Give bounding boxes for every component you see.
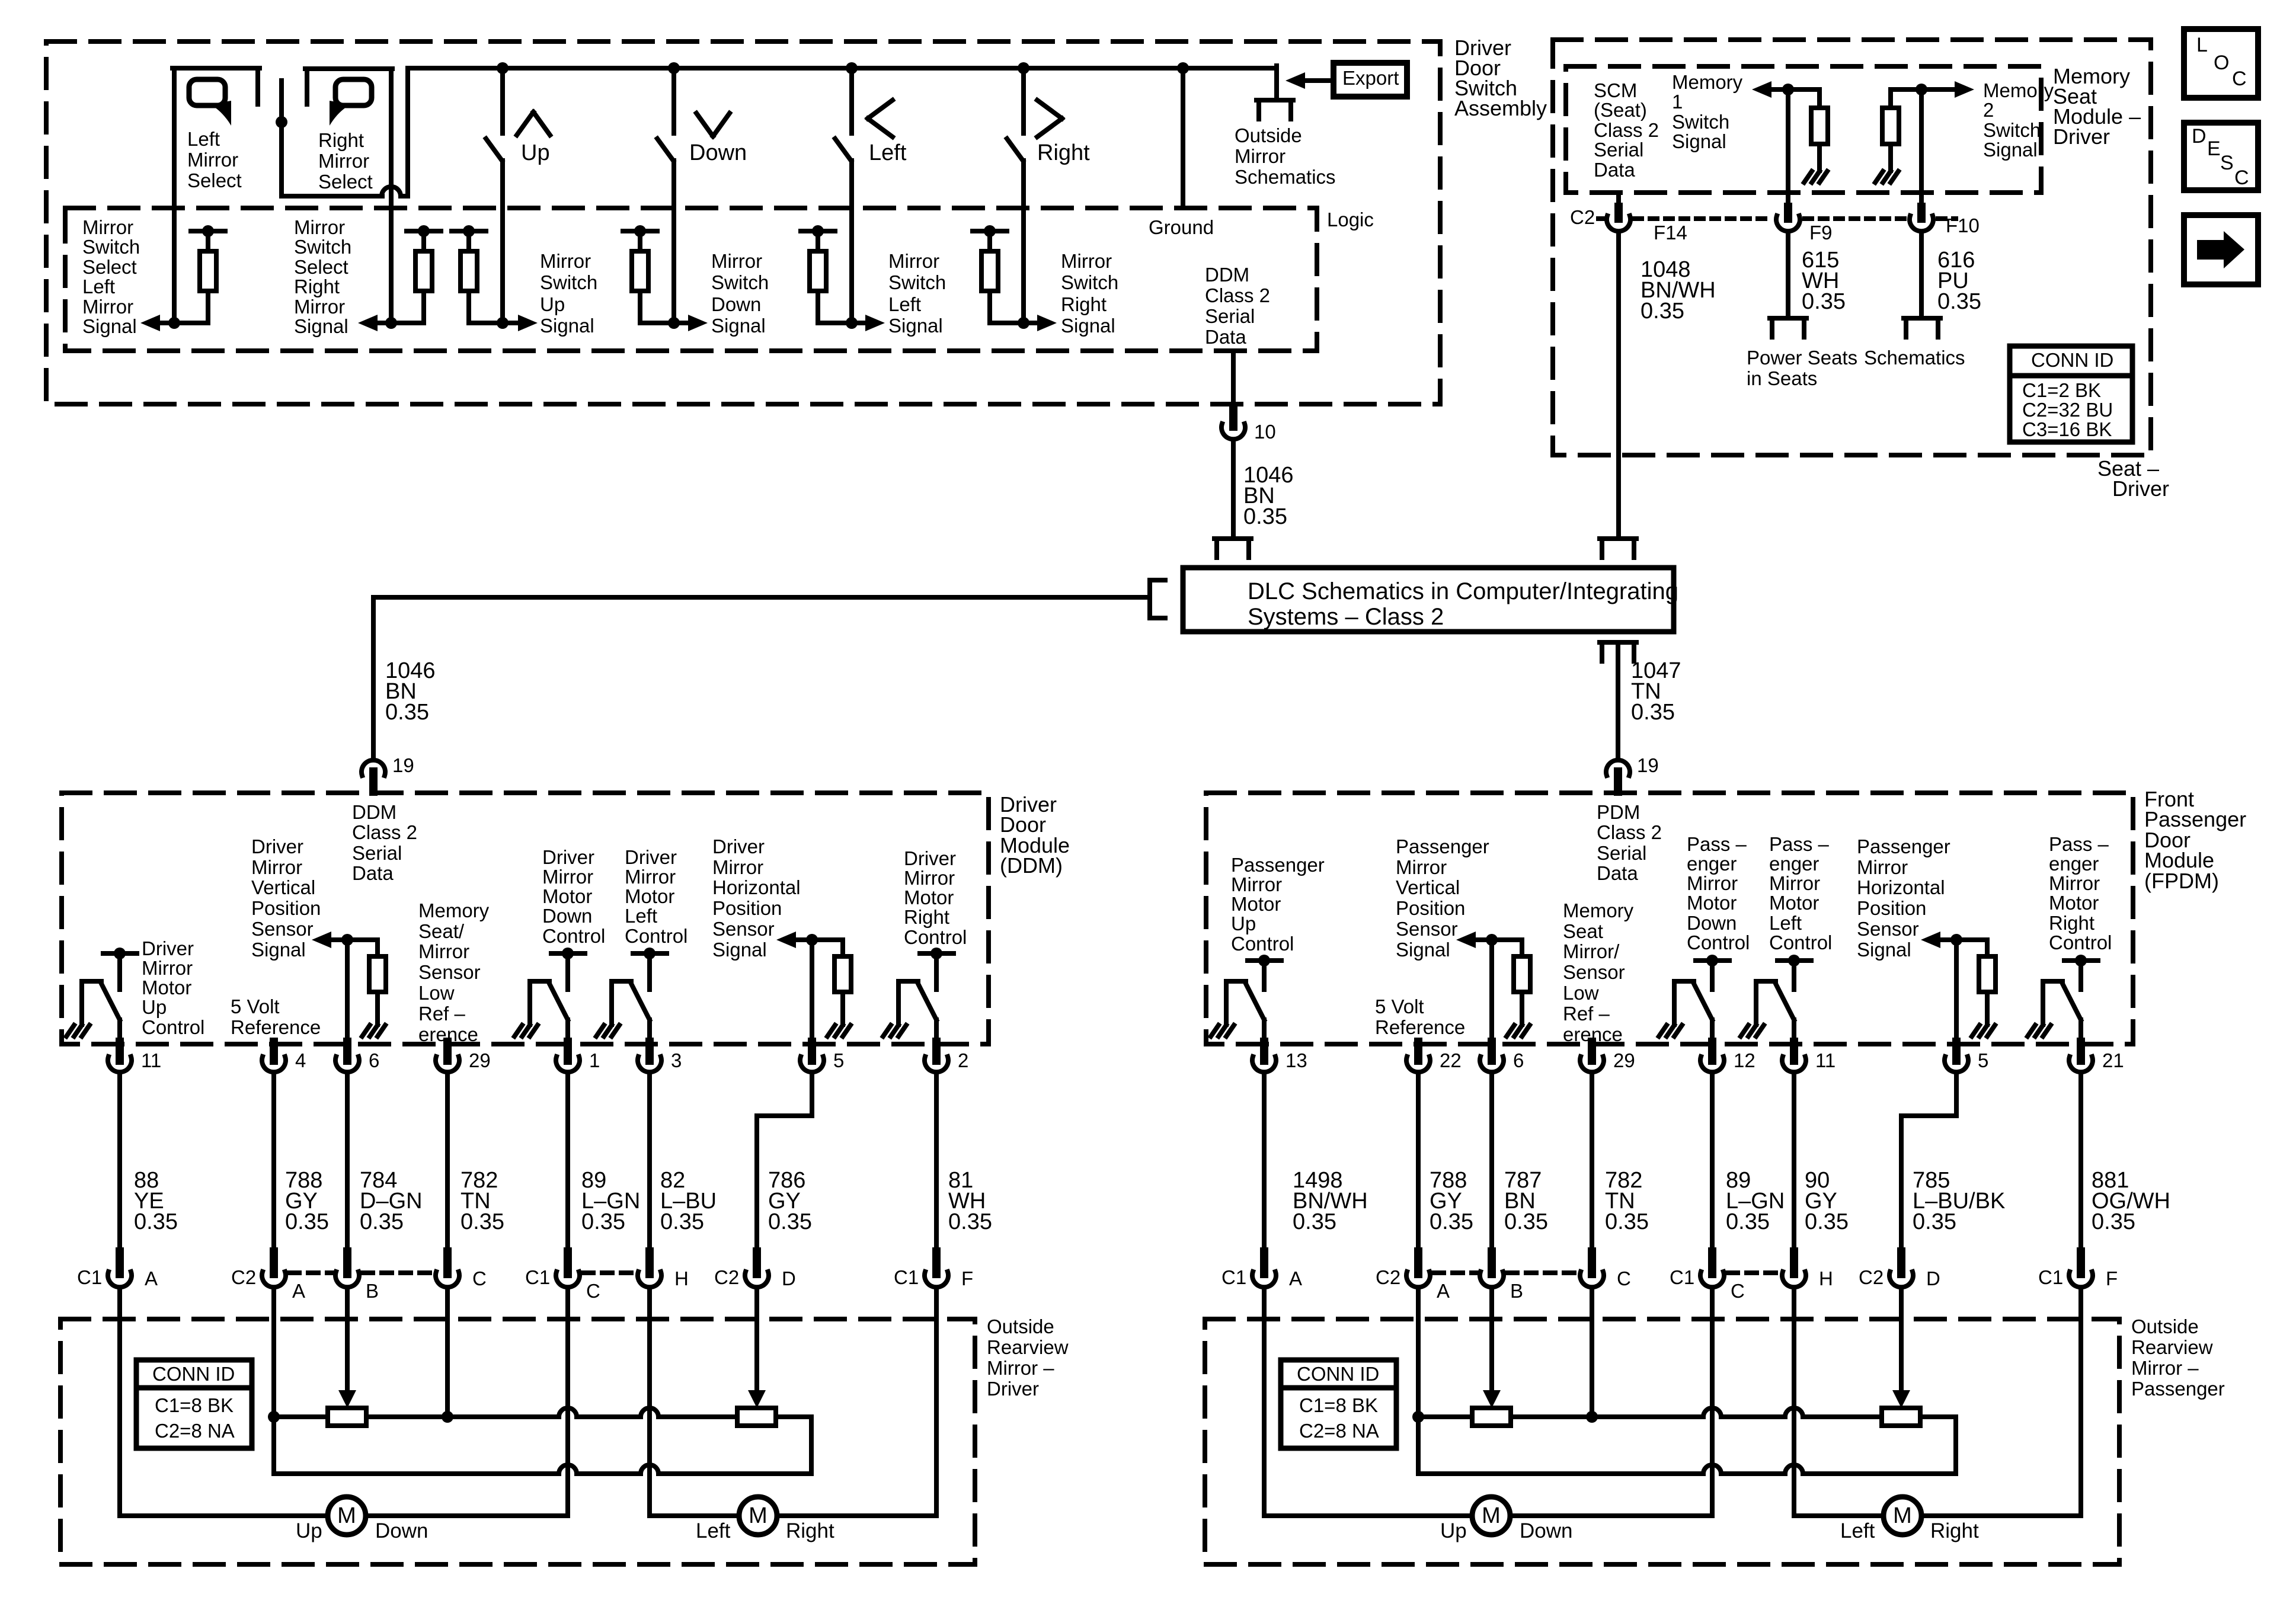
- svg-text:Signal: Signal: [888, 315, 943, 337]
- ground: mirror motor down control: [1659, 1025, 1667, 1036]
- wire: memory 2 branch: [1891, 87, 1955, 92]
- wire 881: motor right feed: [2078, 1073, 2083, 1251]
- svg-text:Mirror: Mirror: [888, 250, 939, 272]
- svg-text:Memory: Memory: [418, 900, 490, 921]
- svg-text:Vertical: Vertical: [251, 876, 315, 898]
- svg-text:Pass –: Pass –: [1769, 833, 1830, 855]
- svg-text:A: A: [1437, 1280, 1450, 1302]
- svg-text:Left: Left: [888, 293, 921, 315]
- wire: connector link dash A-B: [289, 1270, 332, 1275]
- svg-text:Control: Control: [2049, 932, 2112, 953]
- svg-text:Mirror: Mirror: [542, 866, 593, 888]
- module box: Outside Rearview Mirror – Passenger: [1205, 1319, 2119, 1564]
- wire 88: motor up feed: [117, 1073, 122, 1251]
- svg-text:Driver: Driver: [2053, 124, 2110, 149]
- connector terminal A: 5 volt reference: [1414, 1251, 1422, 1274]
- svg-text:M: M: [749, 1503, 768, 1528]
- svg-text:Position: Position: [251, 897, 321, 919]
- svg-text:Vertical: Vertical: [1396, 876, 1460, 898]
- arrow: vertical position sensor signal: [1456, 932, 1476, 948]
- svg-text:Left: Left: [1840, 1519, 1875, 1542]
- svg-text:A: A: [292, 1280, 305, 1302]
- svg-text:(FPDM): (FPDM): [2144, 869, 2219, 893]
- svg-text:Data: Data: [352, 862, 394, 884]
- module box: Logic (inner dashed outline): [65, 208, 1317, 351]
- wire: signal row right: [990, 321, 1037, 325]
- svg-text:0.35: 0.35: [1605, 1209, 1649, 1234]
- svg-text:F9: F9: [1809, 222, 1833, 244]
- wire: rail continues: [577, 1414, 641, 1419]
- svg-text:0.35: 0.35: [285, 1209, 329, 1234]
- svg-text:Sensor: Sensor: [712, 918, 775, 940]
- svg-text:Right: Right: [294, 276, 340, 297]
- svg-text:C1: C1: [525, 1266, 550, 1288]
- wire: mirror motor right control ground branch: [898, 979, 918, 984]
- svg-text:Seat: Seat: [1563, 920, 1603, 942]
- connector pin F14: [1614, 207, 1623, 219]
- wire: right mirror select signal: [389, 69, 394, 323]
- svg-text:0.35: 0.35: [385, 700, 429, 725]
- svg-text:2: 2: [958, 1049, 968, 1071]
- svg-text:Outside: Outside: [987, 1315, 1054, 1337]
- wire: upper pot rail: [1418, 1414, 1472, 1419]
- svg-text:Serial: Serial: [1205, 305, 1255, 327]
- node: mirror motor down control contact: [562, 948, 574, 959]
- wire: terminal C to rail: [1590, 1288, 1594, 1417]
- wire: lower rail hop over motor-left wire: [1785, 1465, 1803, 1474]
- wire 788: 5 volt reference: [1416, 1073, 1421, 1251]
- box: forward arrow: [2184, 215, 2258, 284]
- svg-text:3: 3: [671, 1049, 682, 1071]
- svg-text:Mirror: Mirror: [318, 150, 369, 172]
- svg-text:Signal: Signal: [294, 315, 348, 337]
- wire 89: motor down feed: [565, 1073, 570, 1251]
- wire: lower rail continues: [577, 1471, 641, 1476]
- wire 1046 BN lower segment: [371, 597, 376, 758]
- wire: terminal A to vertical motor: [117, 1288, 122, 1516]
- svg-text:Passenger: Passenger: [1396, 836, 1489, 857]
- switch mirror motor up control: contact bar: [1248, 958, 1281, 963]
- svg-text:(DDM): (DDM): [1000, 853, 1063, 878]
- svg-text:Seat/: Seat/: [418, 920, 465, 942]
- svg-text:C: C: [1731, 1280, 1745, 1302]
- connector row C2 (dotted): [1598, 216, 1603, 221]
- svg-text:D: D: [1926, 1267, 1940, 1289]
- svg-text:Reference: Reference: [1375, 1016, 1465, 1038]
- wire: terminal A to vertical motor: [1262, 1288, 1267, 1516]
- arrow: Mirror Switch Left Signal: [865, 315, 885, 331]
- icon: right mirror glyph: [335, 79, 372, 105]
- connector pin F10: [1917, 207, 1926, 219]
- wire: top supply bus: [408, 66, 1277, 71]
- resistor R6: right signal pull-up: [973, 229, 1007, 233]
- connector terminal B: vertical wiper: [1488, 1251, 1496, 1274]
- wire: terminal B wiper arrow into vertical potentiometer: [345, 1288, 350, 1390]
- switch mirror motor right control: contact bar: [920, 951, 954, 956]
- svg-text:Control: Control: [625, 925, 687, 947]
- svg-text:Right: Right: [904, 906, 949, 928]
- wire: signal row up: [469, 321, 518, 325]
- svg-text:Pass –: Pass –: [1687, 833, 1747, 855]
- off-page connector: DLC to PDM (below box): [1600, 640, 1636, 645]
- wire: rail hop over motor-left wire: [1785, 1408, 1803, 1417]
- connector bracket at DLC left edge: [1147, 580, 1152, 618]
- svg-text:Driver: Driver: [904, 847, 956, 869]
- svg-text:Class 2: Class 2: [1594, 119, 1659, 141]
- wire: terminal C(C1) to vertical motor right: [1710, 1288, 1715, 1516]
- module box: Outside Rearview Mirror – Driver: [60, 1319, 975, 1564]
- wire 1498: motor up feed: [1262, 1073, 1267, 1251]
- switch SW-Left: stub, blade and signal wire: [849, 68, 854, 133]
- svg-text:Mirror: Mirror: [1231, 873, 1282, 895]
- switch SW-Up: stub, blade and signal wire: [500, 68, 505, 133]
- svg-text:M: M: [1482, 1503, 1501, 1528]
- svg-text:Sensor: Sensor: [418, 961, 481, 983]
- svg-text:A: A: [1289, 1267, 1302, 1289]
- wire: rail P2 to corner: [776, 1414, 811, 1419]
- wire: horizontal sensor divider branch: [1985, 940, 1990, 956]
- svg-text:L: L: [2196, 34, 2208, 56]
- wire: R7 to ground: [1817, 144, 1822, 171]
- svg-text:Mirror: Mirror: [251, 856, 302, 878]
- ground: mirror motor right control: [2028, 1025, 2035, 1036]
- svg-text:Mirror: Mirror: [142, 957, 193, 979]
- node: 5V rail junction: [268, 1411, 280, 1423]
- switch mirror motor right control: stub and blade: [934, 953, 939, 990]
- wire: connector link dash B-C: [363, 1270, 432, 1275]
- wire: rail hop over motor-down wire: [559, 1408, 577, 1417]
- svg-text:F10: F10: [1946, 215, 1980, 236]
- svg-text:Switch: Switch: [1983, 119, 2041, 141]
- switch SW-RMS: Right Mirror Select button box: [305, 66, 392, 71]
- switch mirror motor up control: stub and blade: [1262, 961, 1267, 990]
- svg-text:C2=8 NA: C2=8 NA: [155, 1420, 235, 1442]
- wire: connector link dash A-B: [1434, 1270, 1476, 1275]
- wire 89: motor down feed: [1710, 1073, 1715, 1251]
- wire: mirror motor left control ground branch: [612, 979, 631, 984]
- wire 782: low reference: [1590, 1073, 1594, 1251]
- svg-text:Ref –: Ref –: [418, 1003, 466, 1025]
- svg-text:Control: Control: [1687, 932, 1750, 953]
- wire: terminal F to horizontal motor right: [934, 1288, 939, 1516]
- svg-text:Up: Up: [1231, 913, 1256, 934]
- svg-text:C2: C2: [1570, 206, 1595, 228]
- svg-text:Select: Select: [187, 169, 242, 191]
- wire: rail elbow down: [1416, 1417, 1421, 1474]
- node: 5V rail junction: [1412, 1411, 1424, 1423]
- svg-text:Motor: Motor: [625, 885, 674, 907]
- svg-text:Signal: Signal: [1983, 139, 2038, 161]
- wire 616 PU from F10: [1919, 232, 1924, 318]
- module box: Driver Door Module (DDM): [62, 793, 989, 1044]
- table: CONN ID (seat): [2010, 346, 2132, 442]
- node: vertical sensor junction: [341, 934, 353, 946]
- node: mirror motor down control contact: [1706, 955, 1718, 966]
- svg-text:C2: C2: [714, 1266, 739, 1288]
- table: CONN ID (mirror): [1281, 1360, 1396, 1448]
- svg-text:Select: Select: [318, 171, 373, 193]
- node: up signal junction: [497, 317, 509, 329]
- switch mirror motor down control: contact bar: [1696, 958, 1729, 963]
- svg-text:Ground: Ground: [1149, 216, 1214, 238]
- svg-text:Logic: Logic: [1327, 209, 1374, 231]
- svg-text:enger: enger: [1687, 853, 1737, 875]
- arrow: Mirror Switch Right Signal: [1037, 315, 1057, 331]
- node: horizontal sensor junction: [1950, 934, 1962, 946]
- svg-text:Right: Right: [1061, 293, 1107, 315]
- svg-text:12: 12: [1734, 1049, 1755, 1071]
- connector terminal A: 5 volt reference: [270, 1251, 278, 1274]
- node: mirror motor right control contact: [930, 948, 942, 959]
- svg-text:B: B: [366, 1280, 379, 1302]
- off-page connector: serial data to DLC (left): [1214, 536, 1251, 541]
- node: mirror motor left control contact: [1788, 955, 1800, 966]
- svg-text:Left: Left: [625, 905, 657, 927]
- switch mirror motor down control: contact bar: [551, 951, 585, 956]
- wire: horizontal position sensor signal: [1954, 940, 1959, 1043]
- svg-text:Reference: Reference: [231, 1016, 321, 1038]
- motor M2: horizontal mirror motor: [739, 1497, 777, 1535]
- svg-text:CONN ID: CONN ID: [152, 1363, 235, 1385]
- node: vertical sensor junction: [1486, 934, 1498, 946]
- wire: left mirror select signal (to DDM logic): [172, 208, 177, 323]
- svg-text:Mirror –: Mirror –: [2131, 1357, 2199, 1379]
- connector pin 11: mirror motor up control: [116, 1042, 124, 1061]
- svg-text:Pass –: Pass –: [2049, 833, 2109, 855]
- svg-text:Select: Select: [82, 256, 137, 278]
- svg-text:0.35: 0.35: [768, 1209, 812, 1234]
- switch SW-Down: stub, blade and signal wire: [671, 68, 676, 133]
- svg-text:4: 4: [295, 1049, 306, 1071]
- wire 782: low reference: [445, 1073, 450, 1251]
- wire: rail P1 to C: [366, 1414, 559, 1419]
- svg-text:C1: C1: [1670, 1266, 1694, 1288]
- svg-text:0.35: 0.35: [948, 1209, 992, 1234]
- node: mirror motor left control contact: [644, 948, 655, 959]
- wire: connector link dash B-C: [1507, 1270, 1576, 1275]
- off-page connector: serial data to DLC (right): [1600, 536, 1636, 541]
- wire: terminal C(C1) to vertical motor right: [565, 1288, 570, 1516]
- svg-text:Mirror: Mirror: [1687, 872, 1738, 894]
- wire 81: motor right feed: [934, 1073, 939, 1251]
- svg-text:0.35: 0.35: [1243, 504, 1287, 529]
- svg-text:0.35: 0.35: [1913, 1209, 1956, 1234]
- connector terminal A: motor up: [1260, 1251, 1268, 1274]
- switch SW-Right: stub, blade and signal wire: [1021, 68, 1026, 133]
- svg-text:6: 6: [1513, 1049, 1524, 1071]
- svg-text:M: M: [1893, 1503, 1912, 1528]
- svg-text:Memory: Memory: [1983, 79, 2054, 101]
- svg-text:Switch: Switch: [82, 236, 140, 258]
- node: left signal junction: [846, 317, 858, 329]
- svg-text:Position: Position: [1396, 897, 1465, 919]
- svg-text:D: D: [2192, 125, 2207, 148]
- svg-text:C1: C1: [894, 1266, 919, 1288]
- wire: rail hop over motor-down wire: [1703, 1408, 1721, 1417]
- node: left select signal junction: [168, 317, 180, 329]
- svg-text:13: 13: [1285, 1049, 1307, 1071]
- svg-text:Mirror/: Mirror/: [1563, 940, 1620, 962]
- resistor R-horiz: sensor pull-down: [1979, 956, 1996, 992]
- svg-text:Sensor: Sensor: [251, 918, 314, 940]
- svg-text:S: S: [2220, 152, 2234, 174]
- svg-text:Mirror: Mirror: [1769, 872, 1820, 894]
- connector terminal C: motor down: [1708, 1251, 1716, 1274]
- wire: lower rail hop over motor-down wire: [1703, 1465, 1721, 1474]
- resistor R-vert: sensor pull-down: [1514, 956, 1530, 992]
- box: DLC Schematics in Computer/Integrating Systems - Class 2: [1183, 568, 1674, 632]
- svg-text:1: 1: [1672, 91, 1683, 113]
- arrow: horizontal position sensor signal: [776, 932, 796, 948]
- node: memory 2 junction: [1916, 84, 1927, 95]
- svg-text:Outside: Outside: [1235, 124, 1302, 146]
- svg-text:Passenger: Passenger: [1231, 854, 1325, 876]
- svg-text:Right: Right: [1930, 1519, 1979, 1542]
- svg-text:Right: Right: [2049, 912, 2094, 934]
- svg-text:F: F: [961, 1267, 973, 1289]
- wire: signal row left: [818, 321, 865, 325]
- module box: Memory Seat Module - Driver (inner dashed): [1566, 66, 2041, 193]
- svg-text:Down: Down: [711, 293, 761, 315]
- svg-text:O: O: [2214, 52, 2229, 74]
- svg-text:E: E: [2207, 137, 2221, 160]
- connector terminal H: motor left: [645, 1251, 654, 1274]
- svg-text:Switch: Switch: [711, 271, 769, 293]
- node: bus tap for Up switch: [497, 62, 509, 74]
- box: LOC: [2184, 29, 2258, 98]
- switch mirror motor right control: stub and blade: [2078, 961, 2083, 990]
- node: low-ref rail junction: [442, 1411, 453, 1423]
- wire: terminal B wiper arrow into vertical potentiometer: [1489, 1288, 1494, 1390]
- svg-text:Left: Left: [1769, 912, 1802, 934]
- connector pin 5: horizontal position sensor signal: [1952, 1042, 1961, 1061]
- svg-text:0.35: 0.35: [1805, 1209, 1849, 1234]
- node: mirror motor up control contact: [114, 948, 126, 959]
- wire: Export arrow to bus: [1305, 78, 1334, 83]
- arrow: Memory 1 Switch Signal: [1752, 81, 1771, 98]
- wire 90: motor left feed: [1792, 1073, 1796, 1251]
- wire: terminal D wiper arrow into horizontal potentiometer: [1899, 1288, 1904, 1390]
- svg-text:29: 29: [1613, 1049, 1635, 1071]
- ground: horizontal sensor: [827, 1025, 835, 1036]
- svg-text:DDM: DDM: [1205, 264, 1249, 286]
- off-page connector: Schematics (F10): [1904, 316, 1940, 321]
- svg-text:Sensor: Sensor: [1857, 918, 1919, 940]
- svg-text:A: A: [145, 1267, 158, 1289]
- svg-text:Driver: Driver: [625, 846, 677, 868]
- ground: mirror motor down control: [514, 1025, 522, 1036]
- wire 1048 BN/WH from F14: [1616, 232, 1621, 537]
- wire: memory 2 switch to connector F10: [1919, 89, 1924, 207]
- ground: mirror motor up control: [66, 1025, 74, 1036]
- svg-text:Left: Left: [82, 276, 115, 297]
- wire: upper pot rail: [274, 1414, 328, 1419]
- resistor R-horiz: sensor pull-down: [834, 956, 851, 992]
- motor M2: horizontal mirror motor: [1884, 1497, 1921, 1535]
- svg-text:Systems – Class 2: Systems – Class 2: [1248, 604, 1444, 630]
- wire: memory 1 branch: [1771, 87, 1819, 92]
- wire 1046 BN upper segment: [1231, 440, 1236, 537]
- svg-text:Up: Up: [521, 140, 550, 165]
- svg-text:Schematics: Schematics: [1235, 166, 1336, 188]
- connector pin 3: mirror motor left control: [645, 1042, 654, 1061]
- svg-text:Down: Down: [689, 140, 747, 165]
- svg-text:Rearview: Rearview: [2131, 1336, 2213, 1358]
- wire: connector link dash C-H: [583, 1270, 634, 1275]
- svg-text:CONN ID: CONN ID: [1297, 1363, 1379, 1385]
- connector pin 5: horizontal position sensor signal: [808, 1042, 816, 1061]
- svg-text:0.35: 0.35: [1937, 289, 1981, 314]
- svg-text:Mirror: Mirror: [712, 856, 763, 878]
- svg-text:H: H: [674, 1267, 689, 1289]
- potentiometer P2: horizontal position sensor: [737, 1408, 776, 1426]
- svg-text:Horizontal: Horizontal: [712, 876, 801, 898]
- wire 615 WH from F9: [1786, 232, 1790, 318]
- svg-text:Control: Control: [542, 925, 605, 947]
- svg-text:Serial: Serial: [352, 842, 402, 864]
- wire: terminal A(C2) to potentiometer rails: [1416, 1288, 1421, 1417]
- wire 788: 5 volt reference: [271, 1073, 276, 1251]
- svg-text:Right: Right: [318, 129, 364, 151]
- wire: mirror motor left control ground branch: [1756, 979, 1776, 984]
- svg-text:0.35: 0.35: [1641, 299, 1684, 324]
- wire 82: motor left feed: [647, 1073, 652, 1251]
- wire: mirror motor up control ground branch: [1226, 979, 1246, 984]
- svg-text:Mirror: Mirror: [711, 250, 762, 272]
- wire: sensor divider branch: [375, 940, 380, 956]
- connector pin 19: PDM serial data: [1606, 760, 1630, 776]
- svg-text:Motor: Motor: [1769, 892, 1819, 914]
- connector terminal A: motor up: [116, 1251, 124, 1274]
- wire: lower rail hop over motor-down wire: [559, 1465, 577, 1474]
- node: low-ref rail junction: [1586, 1411, 1598, 1423]
- svg-text:Signal: Signal: [251, 939, 306, 961]
- wire: terminal H to horizontal motor left: [1792, 1288, 1796, 1516]
- wire: lower rail to corner: [1803, 1471, 1956, 1476]
- module box: Front Passenger Door Module (FPDM): [1206, 793, 2133, 1044]
- switch mirror motor down control: stub and blade: [1710, 961, 1715, 990]
- svg-text:D: D: [782, 1267, 796, 1289]
- resistor R4: down signal pull-up: [623, 229, 657, 233]
- wire: lower pot rail: [1418, 1471, 1703, 1476]
- svg-text:Mirror: Mirror: [294, 296, 345, 318]
- wire: signal row down: [640, 321, 688, 325]
- svg-text:Position: Position: [712, 897, 782, 919]
- wire: mirror motor down control ground branch: [1674, 979, 1694, 984]
- connector terminal F: motor right: [932, 1251, 941, 1274]
- svg-text:Mirror: Mirror: [625, 866, 676, 888]
- svg-text:C1: C1: [77, 1266, 102, 1288]
- connector pin 1: mirror motor down control: [564, 1042, 572, 1061]
- svg-text:Left: Left: [696, 1519, 731, 1542]
- svg-text:19: 19: [1637, 754, 1659, 776]
- wire: rail elbow down: [271, 1417, 276, 1474]
- wire 1047 TN: [1616, 642, 1620, 758]
- switch mirror motor left control: stub and blade: [1792, 961, 1796, 990]
- svg-text:C2: C2: [1376, 1266, 1400, 1288]
- arrow: Mirror Switch Select Right Mirror Signal: [358, 315, 378, 331]
- node: down signal junction: [668, 317, 680, 329]
- connector terminal C: low reference: [443, 1251, 452, 1274]
- resistor R3: up signal pull-up: [452, 229, 486, 233]
- box: DESC: [2184, 123, 2258, 190]
- svg-text:5 Volt: 5 Volt: [231, 996, 280, 1017]
- wire: resistor to ground: [840, 992, 845, 1025]
- svg-text:0.35: 0.35: [1293, 1209, 1336, 1234]
- connector terminal H: motor left: [1790, 1251, 1798, 1274]
- svg-text:Memory: Memory: [1563, 900, 1634, 921]
- svg-text:Signal: Signal: [711, 315, 766, 337]
